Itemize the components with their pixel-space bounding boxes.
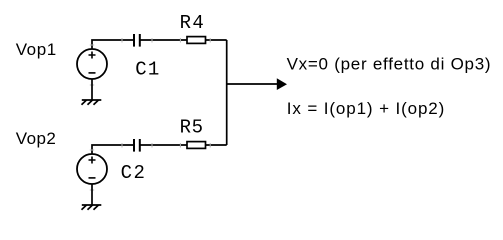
pin ticks top row: [90, 38, 210, 85]
wire V1 top to capacitor C1: [92, 40, 133, 49]
pin ticks bottom row: [90, 143, 210, 190]
capacitor C1: [134, 34, 140, 47]
svg-text:Vx=0 (per effetto di Op3): Vx=0 (per effetto di Op3): [287, 54, 491, 73]
ground GND1: [82, 79, 102, 105]
svg-text:C2: C2: [121, 162, 145, 184]
voltage source V1: [77, 49, 107, 79]
svg-text:R4: R4: [180, 12, 204, 34]
wire C1 to R4: [141, 39, 188, 41]
arrowhead: [277, 78, 287, 90]
voltage source V2: [77, 154, 107, 184]
wire C2 to R5: [141, 144, 188, 146]
resistor R5: [187, 142, 206, 149]
svg-text:Vop2: Vop2: [16, 129, 56, 148]
wire R4 to node X: [206, 39, 227, 41]
resistor R4: [187, 37, 206, 44]
ground GND2: [82, 184, 102, 210]
wire R5 to node X: [206, 144, 227, 146]
svg-text:C1: C1: [135, 59, 159, 81]
svg-text:Vop1: Vop1: [16, 40, 57, 59]
capacitor C2: [134, 139, 140, 152]
wire vertical junction: [226, 40, 228, 145]
svg-text:R5: R5: [180, 116, 203, 138]
wire arrow Ix: [227, 83, 278, 85]
wire V2 top to capacitor C2: [92, 145, 133, 154]
svg-text:Ix = I(op1) + I(op2): Ix = I(op1) + I(op2): [287, 99, 445, 118]
